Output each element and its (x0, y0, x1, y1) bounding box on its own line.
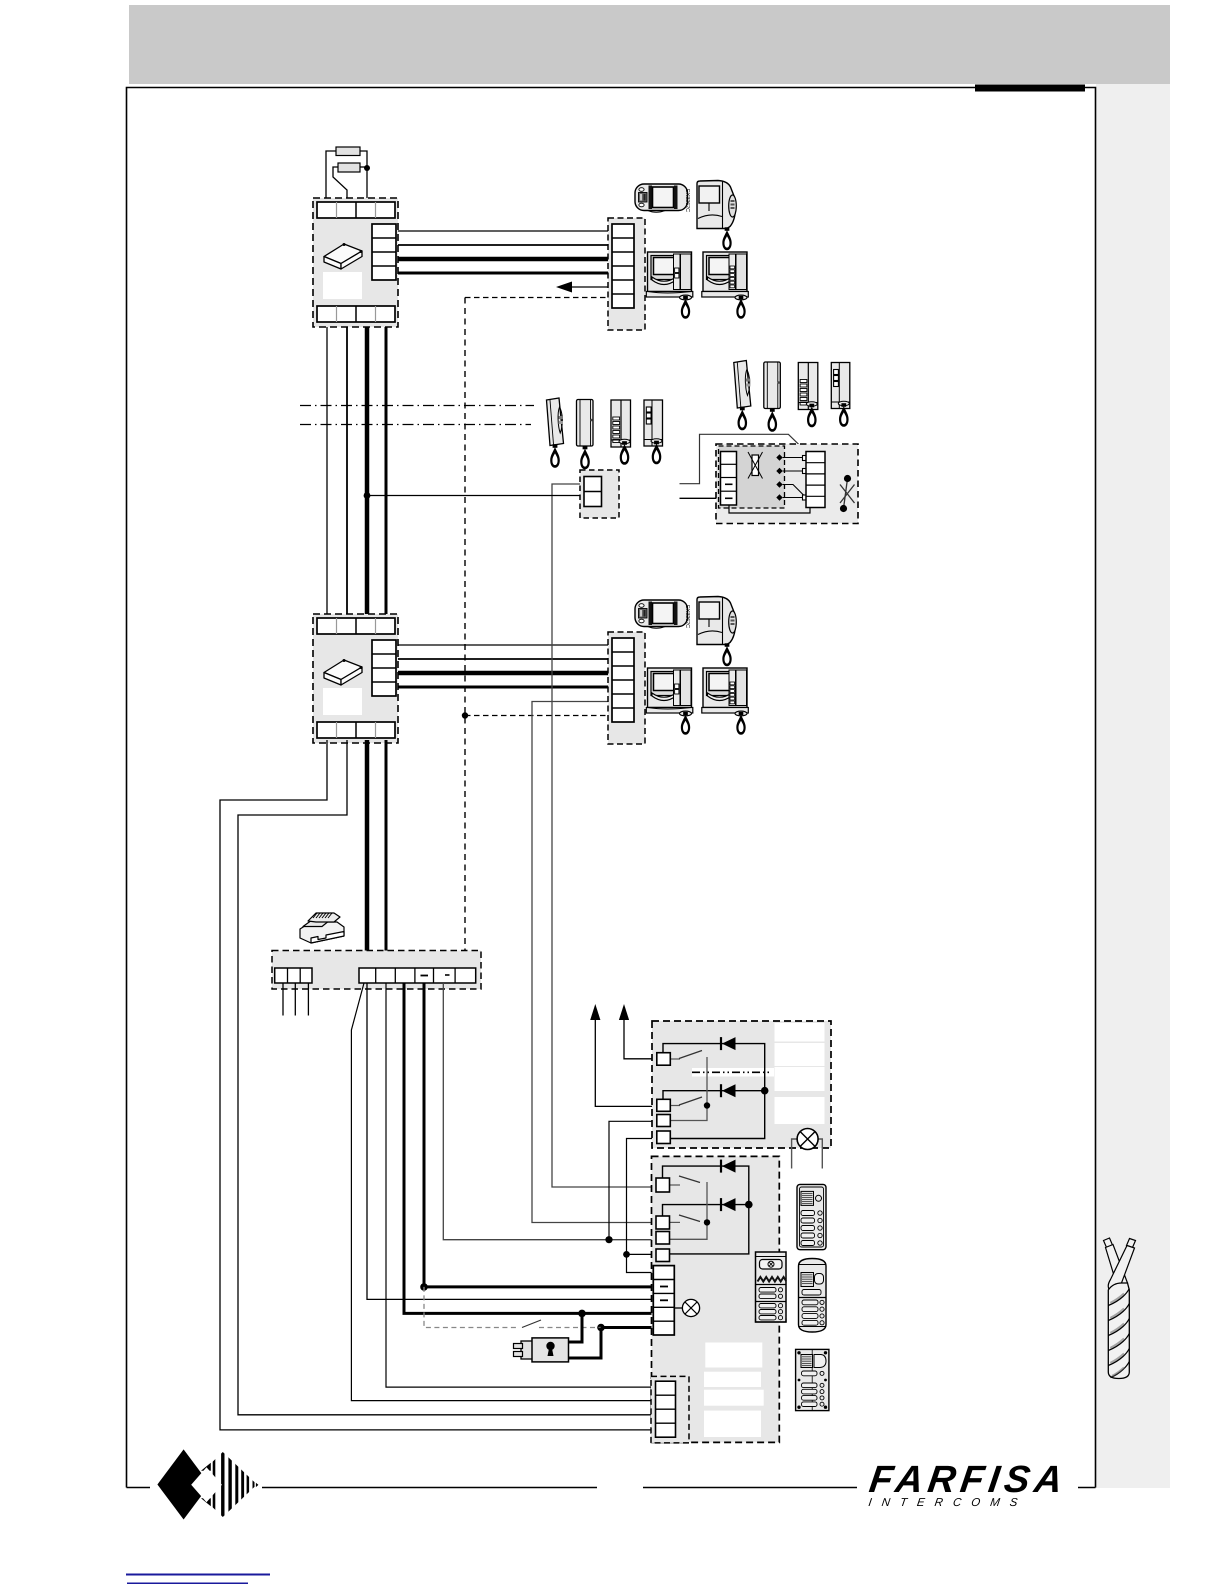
svg-text:EX3262C: EX3262C (684, 189, 690, 212)
svg-text:FARFISA: FARFISA (867, 1458, 1071, 1501)
svg-text:INTERCOMS: INTERCOMS (868, 1497, 1029, 1509)
